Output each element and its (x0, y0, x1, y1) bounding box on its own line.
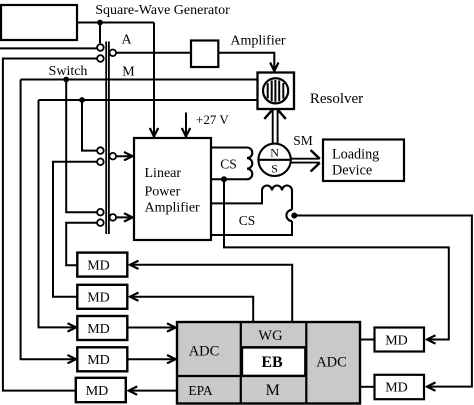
wire EPA to MD5 (arrow) (129, 390, 177, 392)
svg-text:N: N (270, 145, 279, 159)
switch mechanical bar (105, 42, 107, 235)
MD box 1 left (77, 253, 127, 277)
node junction dot on resolver line 1 (63, 77, 69, 83)
wire CS2 left end to LPA (211, 191, 262, 204)
divider right column (305, 322, 307, 404)
gray electronics block (177, 322, 360, 404)
MD box 2 left (77, 285, 127, 309)
contact A (97, 44, 104, 51)
svg-text:Loading: Loading (332, 146, 379, 162)
svg-text:M: M (266, 382, 280, 399)
divider left column (240, 322, 242, 404)
wire MD3 output to ADC (arrow) (127, 327, 176, 329)
motor divider line (258, 159, 290, 161)
wire generator line down into LPA top (arrow) (153, 23, 155, 137)
EB white cell (242, 348, 305, 376)
svg-text:Switch: Switch (49, 64, 88, 79)
wire CS1 top from LPA (211, 147, 247, 149)
pole 1 (110, 50, 117, 57)
svg-text:MD: MD (87, 353, 110, 368)
wire brush to right MD2 (arrow) (294, 216, 472, 387)
shaft resolver to motor (273, 109, 278, 144)
wire contact4 to MD1 left (66, 223, 97, 266)
shaft arrowhead at resolver (264, 110, 286, 119)
wire WG riser to MD2 right (arrow) (130, 297, 253, 322)
svg-text:A: A (121, 33, 132, 48)
resolver stripes (268, 80, 284, 102)
coil CS2 (262, 186, 292, 210)
svg-text:MD: MD (87, 258, 110, 273)
wire CS1 tap down and right to right MD1 (arrow) (224, 179, 449, 339)
node brush dot (291, 213, 297, 219)
MD box 4 left (77, 347, 127, 371)
svg-text:MD: MD (87, 322, 110, 337)
wire WG riser to MD1 right (arrow) (130, 265, 292, 322)
wire ADC to right MD1 (360, 339, 375, 341)
wire ADC to right MD2 (360, 386, 375, 388)
shaft arrowhead at loading device (311, 150, 320, 172)
node junction dot on resolver line 2 (79, 97, 85, 103)
resolver box (258, 73, 295, 110)
contact M (97, 55, 104, 62)
contact 2 (97, 159, 104, 166)
svg-text:EB: EB (261, 354, 283, 371)
wire pole3 into LPA (arrow) (116, 216, 132, 218)
wire MD4 output to ADC (arrow) (127, 358, 176, 360)
wire pole1 to amplifier (116, 52, 191, 54)
svg-text:S: S (271, 162, 278, 176)
loading device box (323, 140, 404, 182)
MD box 1 right (375, 328, 425, 352)
svg-text:ADC: ADC (189, 344, 220, 360)
divider M top (241, 375, 306, 377)
svg-text:MD: MD (87, 291, 110, 306)
svg-text:ADC: ADC (316, 355, 347, 371)
node junction at generator line (97, 20, 103, 26)
wire resolver line 2 left end down to MD3 input (arrow) (39, 100, 77, 327)
contact 4 (97, 219, 104, 226)
wire M contact to MD5 (left tall loop) (3, 59, 97, 391)
wire CS1 bottom to LPA (211, 178, 247, 180)
square-wave generator box (1, 5, 77, 40)
wire LPA bottom line to slip ring (211, 221, 292, 235)
wire generator output to switch and LPA (77, 22, 154, 24)
MD box 5 left (76, 378, 126, 402)
svg-text:Amplifier: Amplifier (145, 201, 201, 216)
wire from junction down to contact A (99, 23, 101, 44)
svg-text:Resolver: Resolver (310, 91, 363, 107)
wire +27V arrow into LPA top (185, 113, 187, 137)
wire junction down to contact3 (66, 80, 97, 213)
svg-text:Device: Device (332, 162, 372, 178)
svg-text:Power: Power (145, 184, 181, 199)
coil CS1 (247, 148, 252, 180)
linear power amplifier box U1 (134, 138, 211, 240)
resolver circle (263, 78, 288, 103)
contact 3 (97, 209, 104, 216)
wire junction down to contact1 (82, 100, 97, 151)
wire resolver line 1 (21, 79, 258, 81)
svg-text:MD: MD (86, 384, 109, 399)
svg-text:SM: SM (293, 133, 313, 148)
svg-text:Linear: Linear (145, 166, 182, 181)
contact 1 (97, 147, 104, 154)
slip ring arc (286, 210, 292, 221)
svg-text:M: M (122, 65, 135, 80)
divider WG bottom (241, 346, 306, 348)
svg-text:+27 V: +27 V (196, 112, 229, 127)
svg-text:MD: MD (385, 381, 408, 396)
wire contact2 to MD2 left (53, 162, 97, 297)
svg-text:Amplifier: Amplifier (230, 34, 286, 49)
node junction dot CS1 (221, 176, 227, 182)
wire resolver line 1 left end down to MD4 input (arrow) (21, 80, 76, 360)
pole 2 (110, 153, 117, 160)
MD box 3 left (77, 316, 127, 340)
svg-text:WG: WG (258, 328, 283, 344)
motor circle (servo motor) (258, 144, 290, 176)
wire cut off at left edge to contact A (0, 47, 97, 49)
pole 3 (110, 214, 117, 221)
svg-text:Square-Wave Generator: Square-Wave Generator (95, 3, 230, 18)
amplifier box (191, 41, 218, 68)
divider ADC/EPA (177, 375, 241, 377)
svg-text:CS: CS (239, 213, 256, 228)
svg-text:EPA: EPA (188, 383, 213, 398)
MD box 2 right (375, 375, 425, 399)
shaft motor to loading device (291, 159, 320, 163)
switch group 1 contacts (97, 44, 116, 226)
wire pole2 into LPA (arrow) (116, 155, 132, 157)
wire amplifier to resolver top (arrow) (218, 53, 274, 71)
svg-text:MD: MD (385, 333, 408, 348)
wire resolver line 2 (39, 99, 258, 101)
svg-text:CS: CS (220, 157, 237, 172)
